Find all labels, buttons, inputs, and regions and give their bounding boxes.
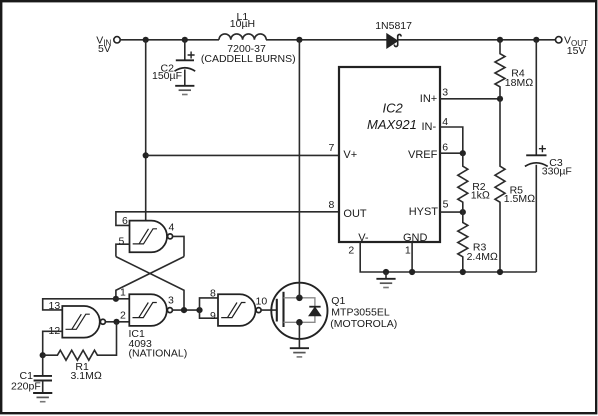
capacitor C1 (11, 355, 52, 392)
svg-text:15V: 15V (567, 45, 586, 57)
resistor R1 (43, 322, 117, 382)
junction HYST/R2/R3 (460, 209, 466, 215)
gate IC1D (pins 8,9 -> 10) (210, 288, 267, 326)
wire V+ vertical (145, 40, 147, 221)
svg-text:6: 6 (122, 215, 128, 227)
gate IC1B (pins 13,12 -> 11) (49, 300, 106, 337)
wire V+ to pin7 (146, 154, 339, 156)
svg-text:5: 5 (443, 199, 449, 211)
svg-text:VREF: VREF (408, 149, 438, 161)
svg-text:220pF: 220pF (11, 380, 41, 392)
svg-text:1: 1 (120, 287, 126, 299)
wire IN+ pin3 to R4/R5 node (440, 98, 500, 100)
wire gate3 output (172, 309, 199, 311)
node VOUT terminal (556, 35, 589, 57)
wire drain to switch node (298, 40, 300, 298)
wire gate2 out to gate3 pin2 (106, 321, 130, 323)
diode D1 1N5817 (375, 20, 412, 48)
svg-text:Q1: Q1 (331, 295, 345, 307)
junction gnd symbol (383, 269, 389, 275)
svg-text:10µH: 10µH (230, 18, 255, 30)
wire gate1 pin5 (116, 244, 130, 256)
svg-text:MAX921: MAX921 (367, 117, 417, 132)
inductor L1 (201, 11, 296, 65)
wire VREF pin6 stub (440, 152, 463, 154)
junction node pin1/13 (113, 296, 119, 302)
wire GND pin1 (411, 242, 413, 272)
junction R4 top (497, 37, 503, 43)
junction R4/R5/IN+ (497, 96, 503, 102)
junction R1 right (113, 319, 119, 325)
wire source to ground (298, 322, 300, 347)
label IC1 (129, 328, 188, 359)
svg-text:13: 13 (49, 300, 61, 312)
capacitor C2 (152, 40, 195, 86)
svg-text:4: 4 (169, 221, 175, 233)
junction R5 bottom (497, 269, 503, 275)
svg-text:1N5817: 1N5817 (375, 20, 412, 32)
wire cross X (116, 257, 184, 311)
IC2 MAX921 box (339, 67, 440, 244)
svg-text:2.4MΩ: 2.4MΩ (467, 251, 498, 263)
wire HYST pin5 stub (440, 211, 463, 213)
svg-text:IN+: IN+ (420, 93, 437, 105)
svg-text:V+: V+ (343, 149, 357, 161)
svg-text:150µF: 150µF (152, 70, 182, 82)
svg-text:2: 2 (120, 309, 126, 321)
node VIN terminal (96, 34, 120, 55)
svg-text:(CADDELL BURNS): (CADDELL BURNS) (201, 53, 296, 65)
svg-text:330µF: 330µF (542, 166, 572, 178)
ground Q1 (290, 348, 309, 357)
wire bottom rail (360, 242, 536, 272)
svg-text:IN-: IN- (422, 121, 437, 133)
wire gate1 out4 (173, 236, 185, 256)
junction V+ to IC2 (143, 152, 149, 158)
svg-text:3: 3 (442, 87, 448, 99)
svg-text:OUT: OUT (343, 208, 367, 220)
wire pin13 route (43, 299, 116, 310)
svg-text:IC2: IC2 (383, 101, 404, 116)
junction out3/X (181, 307, 187, 313)
wire pin1 stub (116, 298, 129, 300)
junction V+ branch (143, 37, 149, 43)
gate IC1C (pins 1,2 -> 3) (120, 287, 174, 326)
resistor R3 (458, 212, 498, 272)
svg-text:5V: 5V (98, 43, 111, 55)
ground C2 (175, 86, 194, 95)
svg-text:1kΩ: 1kΩ (471, 190, 490, 202)
ground IC2 (376, 272, 395, 288)
svg-text:(MOTOROLA): (MOTOROLA) (330, 318, 397, 330)
svg-text:GND: GND (403, 232, 428, 244)
svg-text:10: 10 (256, 296, 268, 308)
wire pin12 route (43, 331, 63, 355)
svg-text:7: 7 (329, 142, 335, 154)
svg-text:8: 8 (329, 199, 335, 211)
junction C2 branch (182, 37, 188, 43)
wire 8/9 bracket (200, 298, 219, 318)
resistor R4 (495, 40, 533, 99)
svg-text:5: 5 (119, 236, 125, 248)
junction out3/bracket (196, 307, 202, 313)
junction VREF/IN-/R2 (460, 150, 466, 156)
svg-text:9: 9 (210, 310, 216, 322)
ground C1 (33, 393, 52, 402)
svg-text:1: 1 (405, 244, 411, 256)
capacitor C3 (525, 40, 572, 272)
gate IC1A (pins 6,5 -> 4) (119, 215, 175, 252)
resistor R2 (458, 153, 490, 212)
junction R3 bottom (460, 269, 466, 275)
junction C3 branch (533, 37, 539, 43)
svg-text:3: 3 (168, 294, 174, 306)
wire top rail (120, 39, 555, 41)
wire OUT pin8 to gate1 pin6 (116, 212, 339, 226)
transistor Q1 MTP3055EL (271, 283, 397, 339)
resistor R5 (495, 99, 535, 272)
svg-text:18MΩ: 18MΩ (505, 77, 534, 89)
svg-text:2: 2 (348, 244, 354, 256)
wire gate4 out to Q1 gate (261, 309, 277, 311)
svg-text:1.5MΩ: 1.5MΩ (504, 193, 535, 205)
svg-text:MTP3055EL: MTP3055EL (331, 306, 390, 318)
junction C1/R1 (40, 352, 46, 358)
svg-text:6: 6 (442, 142, 448, 154)
wire IN- pin4 to VREF node (440, 127, 463, 153)
svg-text:HYST: HYST (409, 206, 439, 218)
junction GND pin (409, 269, 415, 275)
svg-text:8: 8 (210, 288, 216, 300)
junction drain/switch node (296, 37, 302, 43)
svg-text:3.1MΩ: 3.1MΩ (71, 370, 102, 382)
svg-text:(NATIONAL): (NATIONAL) (129, 347, 188, 359)
